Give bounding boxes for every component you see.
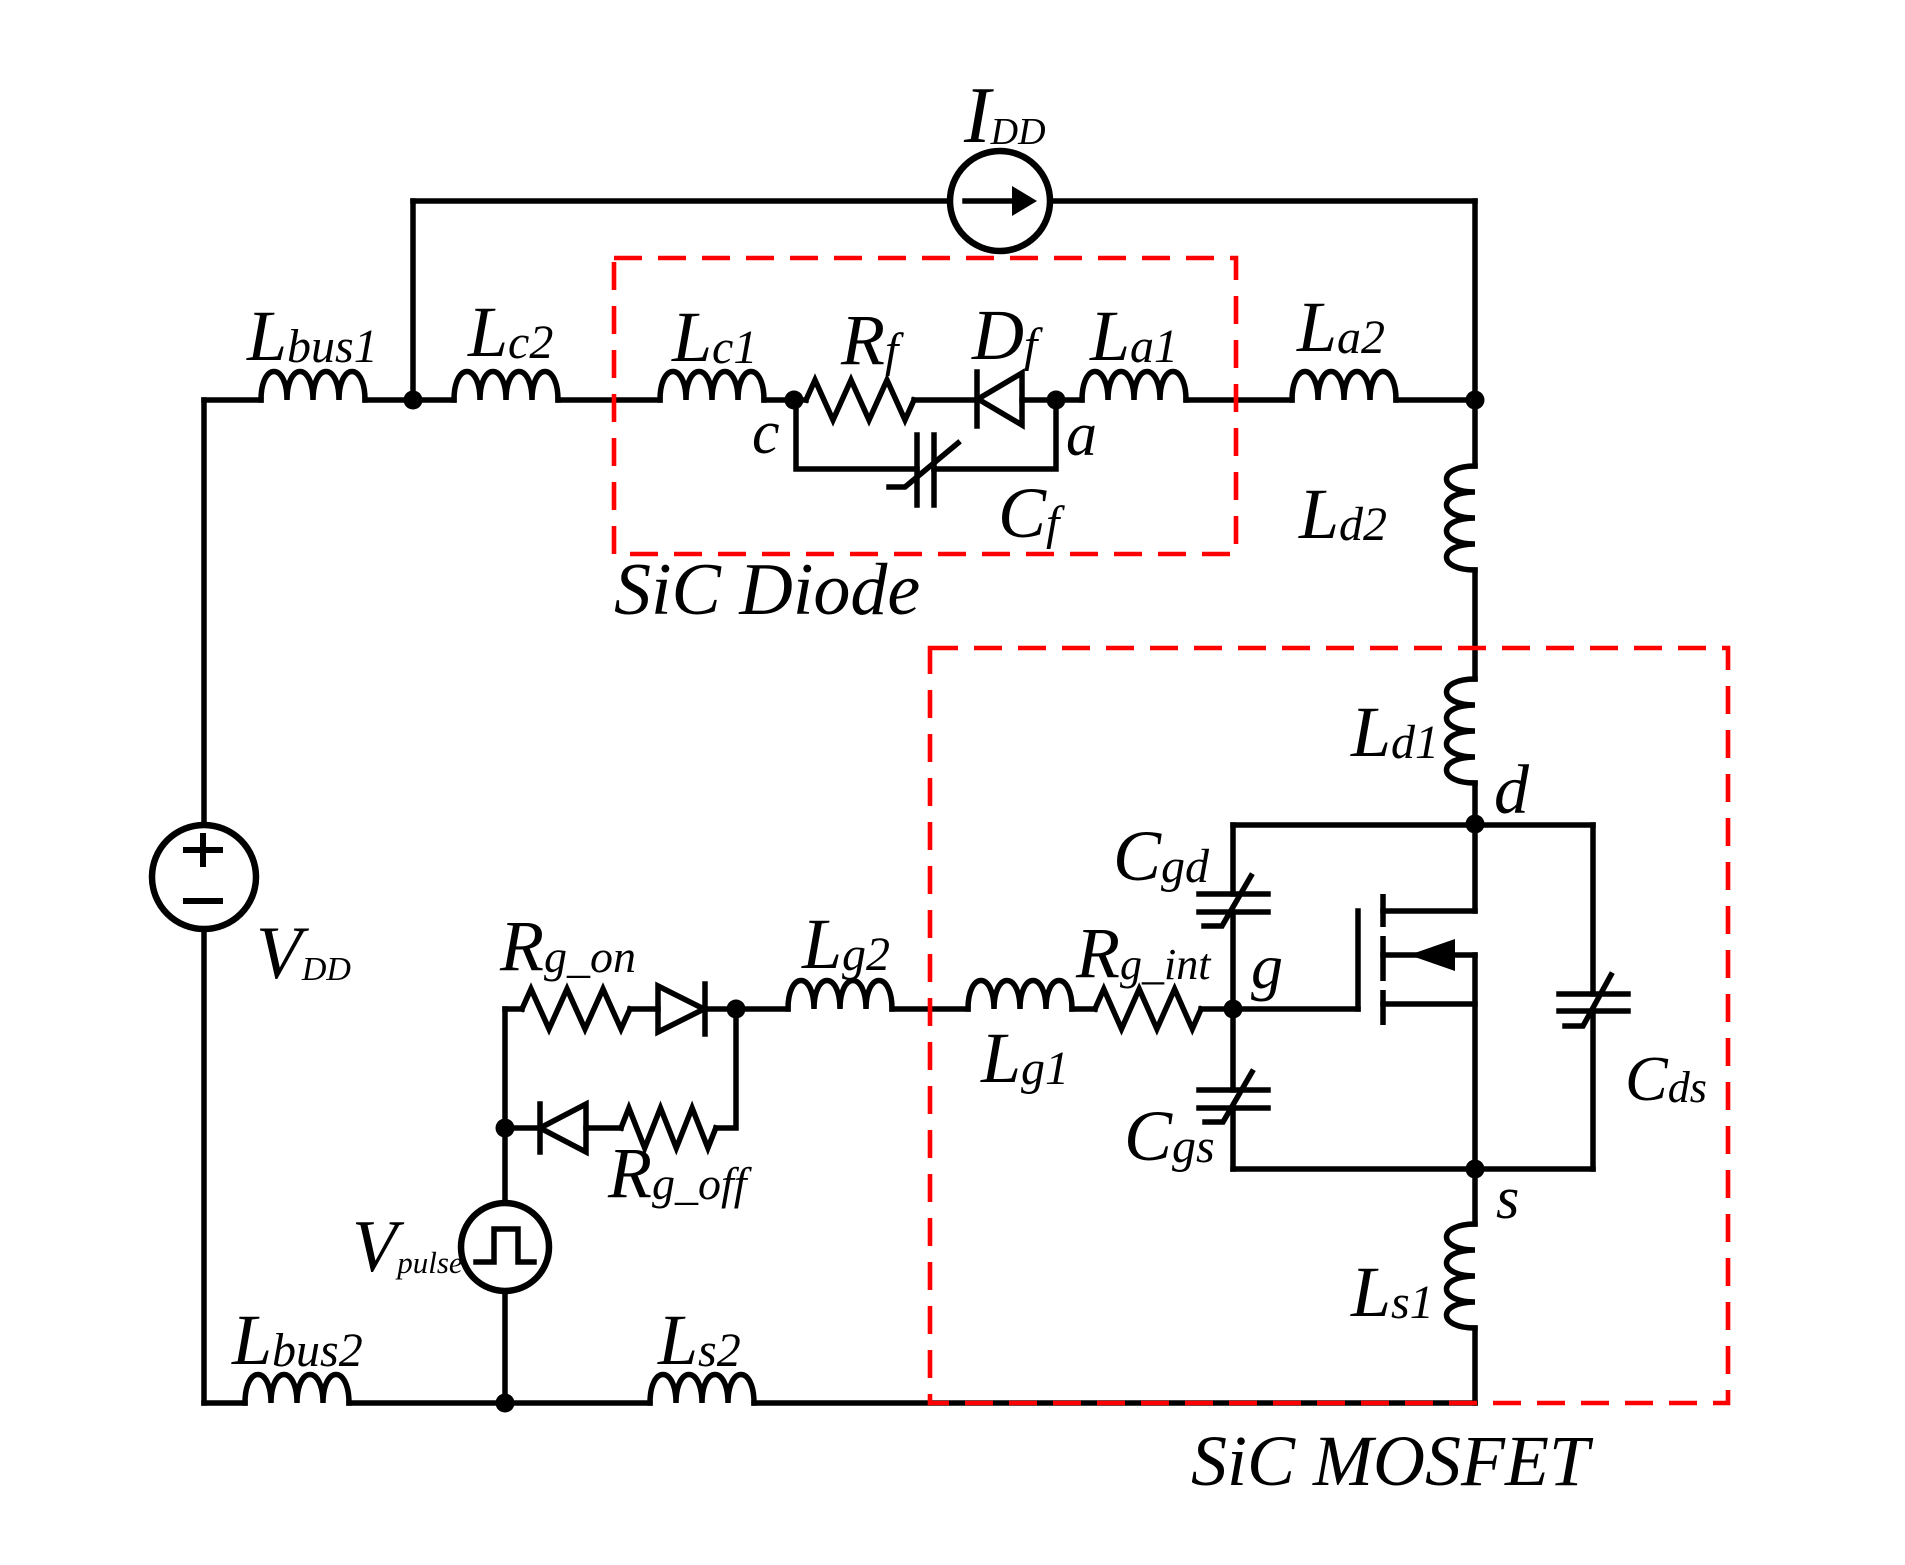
transistor M1 gate electrode <box>1355 911 1361 1009</box>
svg-text:Rg_on: Rg_on <box>499 906 636 986</box>
wire Cds top vertical <box>1590 825 1596 994</box>
wire VDD down to bottom rail <box>201 929 207 1403</box>
node junction Vpulse/bottom rail <box>496 1394 515 1413</box>
wire Lg1 to Rg_int <box>1072 1006 1095 1012</box>
svg-text:Lbus1: Lbus1 <box>246 296 378 376</box>
voltage source Vpulse <box>461 1203 549 1291</box>
wire current source to right corner <box>1050 198 1475 204</box>
wire bottom-left <box>204 1400 245 1406</box>
node c <box>785 391 804 410</box>
wire right rail down to Ld2 <box>1472 201 1478 466</box>
resistor Rg_on <box>522 989 630 1029</box>
svg-text:Ls2: Ls2 <box>657 1300 741 1380</box>
current source IDD <box>950 151 1050 251</box>
wire node B to Lg2 <box>736 1006 788 1012</box>
wire Cf to node a <box>934 400 1056 469</box>
wire Ls1 to bottom rail <box>1472 1328 1478 1403</box>
node junction La2/right rail <box>1466 391 1485 410</box>
svg-text:Lg1: Lg1 <box>980 1018 1069 1098</box>
diode D_off <box>504 1104 621 1152</box>
svg-text:Ld1: Ld1 <box>1350 692 1439 772</box>
inductor La2 <box>1292 372 1396 401</box>
wire Cgs to bottom <box>1230 1108 1236 1169</box>
svg-text:Lc2: Lc2 <box>467 292 553 372</box>
inductor Lc2 <box>454 372 558 401</box>
wire inner bottom horizontal <box>1233 1166 1593 1172</box>
wire node s to Ls1 <box>1472 1169 1478 1224</box>
inductor Lg1 <box>968 981 1072 1010</box>
node a <box>1047 391 1066 410</box>
svg-text:a: a <box>1066 401 1097 469</box>
inductor La1 <box>1082 372 1186 401</box>
svg-text:La2: La2 <box>1296 287 1385 367</box>
resistor Rg_int <box>1095 989 1201 1029</box>
inductor Ld1 <box>1447 679 1476 783</box>
wire La1 to La2 <box>1186 397 1292 403</box>
inductor Ls2 <box>650 1375 754 1404</box>
inductor Lbus2 <box>245 1375 349 1404</box>
capacitor Cgs <box>1199 1072 1268 1122</box>
inductor Ls1 <box>1447 1224 1476 1328</box>
wire Lc2 to Lc1 <box>558 397 660 403</box>
wire Lg2 to Lg1 <box>892 1006 968 1012</box>
wire Ld2 to Ld1 <box>1472 570 1478 679</box>
svg-text:VDD: VDD <box>256 912 351 995</box>
svg-text:Rg_int: Rg_int <box>1075 913 1212 993</box>
wire Lbus1 to junction <box>365 397 454 403</box>
inductor Ld2 <box>1447 466 1476 570</box>
resistor Rg_off <box>621 1108 716 1148</box>
transistor M1 body arrow <box>1383 939 1475 971</box>
wire left vertical to Cgd <box>1230 825 1236 894</box>
wire Ls2 to right <box>754 1400 1475 1406</box>
wire left rail down to VDD <box>201 400 207 825</box>
svg-text:c: c <box>752 399 780 467</box>
node g <box>1224 1000 1243 1019</box>
wire left vertical Rg_on/Rg_off <box>502 1009 508 1128</box>
wire node C down to Vpulse <box>502 1128 508 1203</box>
wire Ld1 to node d <box>1472 783 1478 825</box>
svg-text:d: d <box>1494 752 1530 829</box>
wire node a to La1 <box>1056 397 1082 403</box>
svg-text:Rf: Rf <box>840 300 904 380</box>
transistor M1 drain connection <box>1383 825 1475 911</box>
wire La2 to right rail <box>1396 397 1475 403</box>
wire Cds bottom vertical <box>1590 1011 1596 1169</box>
wire diode to node B <box>705 1006 736 1012</box>
wire node g to Cgs <box>1230 1009 1236 1090</box>
wire Rg_on to diode <box>630 1006 658 1012</box>
node d <box>1466 815 1485 834</box>
resistor Rf <box>806 380 914 420</box>
node s <box>1466 1160 1485 1179</box>
svg-text:Df: Df <box>971 295 1043 375</box>
svg-text:Lbus2: Lbus2 <box>231 1300 363 1380</box>
wire top-left rail segment <box>204 397 261 403</box>
wire Rf to Df <box>914 397 977 403</box>
svg-text:SiC MOSFET: SiC MOSFET <box>1191 1421 1594 1501</box>
inductor Lg2 <box>788 981 892 1010</box>
SiC Diode dashed box <box>614 258 1236 554</box>
capacitor Cgd <box>1199 876 1268 926</box>
svg-text:Lg2: Lg2 <box>801 904 890 984</box>
svg-text:Ld2: Ld2 <box>1298 474 1387 554</box>
wire Lbus2 to node <box>349 1400 650 1406</box>
wire inner top horizontal <box>1233 822 1593 828</box>
node junction Rg_off/Vpulse <box>496 1119 515 1138</box>
svg-text:Lc1: Lc1 <box>671 297 757 377</box>
svg-text:SiC Diode: SiC Diode <box>614 549 920 631</box>
wire Cgd to node g <box>1230 912 1236 1009</box>
voltage source VDD <box>152 825 256 929</box>
wire Rg_int to node g <box>1201 1006 1233 1012</box>
capacitor Cf <box>889 435 958 505</box>
transistor M1 source connection <box>1383 955 1475 1169</box>
inductor Lbus1 <box>261 372 365 401</box>
svg-text:Cds: Cds <box>1625 1043 1707 1114</box>
capacitor Cds <box>1559 975 1628 1026</box>
node junction gate diode output <box>727 1000 746 1019</box>
diode D_on <box>658 984 705 1034</box>
wire junction vertical up <box>410 201 416 400</box>
svg-text:Vpulse: Vpulse <box>352 1206 463 1288</box>
svg-text:g: g <box>1251 931 1283 1002</box>
wire right vertical node B down <box>716 1009 736 1128</box>
inductor Lc1 <box>660 372 764 401</box>
wire Lc1 to node c <box>764 397 806 403</box>
svg-text:s: s <box>1496 1165 1519 1231</box>
svg-text:Cgd: Cgd <box>1113 816 1210 896</box>
svg-text:Ls1: Ls1 <box>1350 1252 1434 1332</box>
svg-text:La1: La1 <box>1089 296 1178 376</box>
diode Df <box>977 372 1056 426</box>
svg-text:IDD: IDD <box>963 72 1046 160</box>
wire node c down <box>796 400 917 469</box>
transistor M1 gate lead <box>1233 1006 1358 1012</box>
SiC MOSFET dashed box <box>930 648 1728 1403</box>
svg-text:Cf: Cf <box>998 473 1065 553</box>
transistor M1 channel segments <box>1380 894 1386 1025</box>
wire Rg_on left corner <box>505 1006 522 1012</box>
wire Vpulse to bottom node <box>502 1291 508 1403</box>
wire top rail to current source <box>413 198 950 204</box>
node junction Lbus1/Lc2 <box>404 391 423 410</box>
